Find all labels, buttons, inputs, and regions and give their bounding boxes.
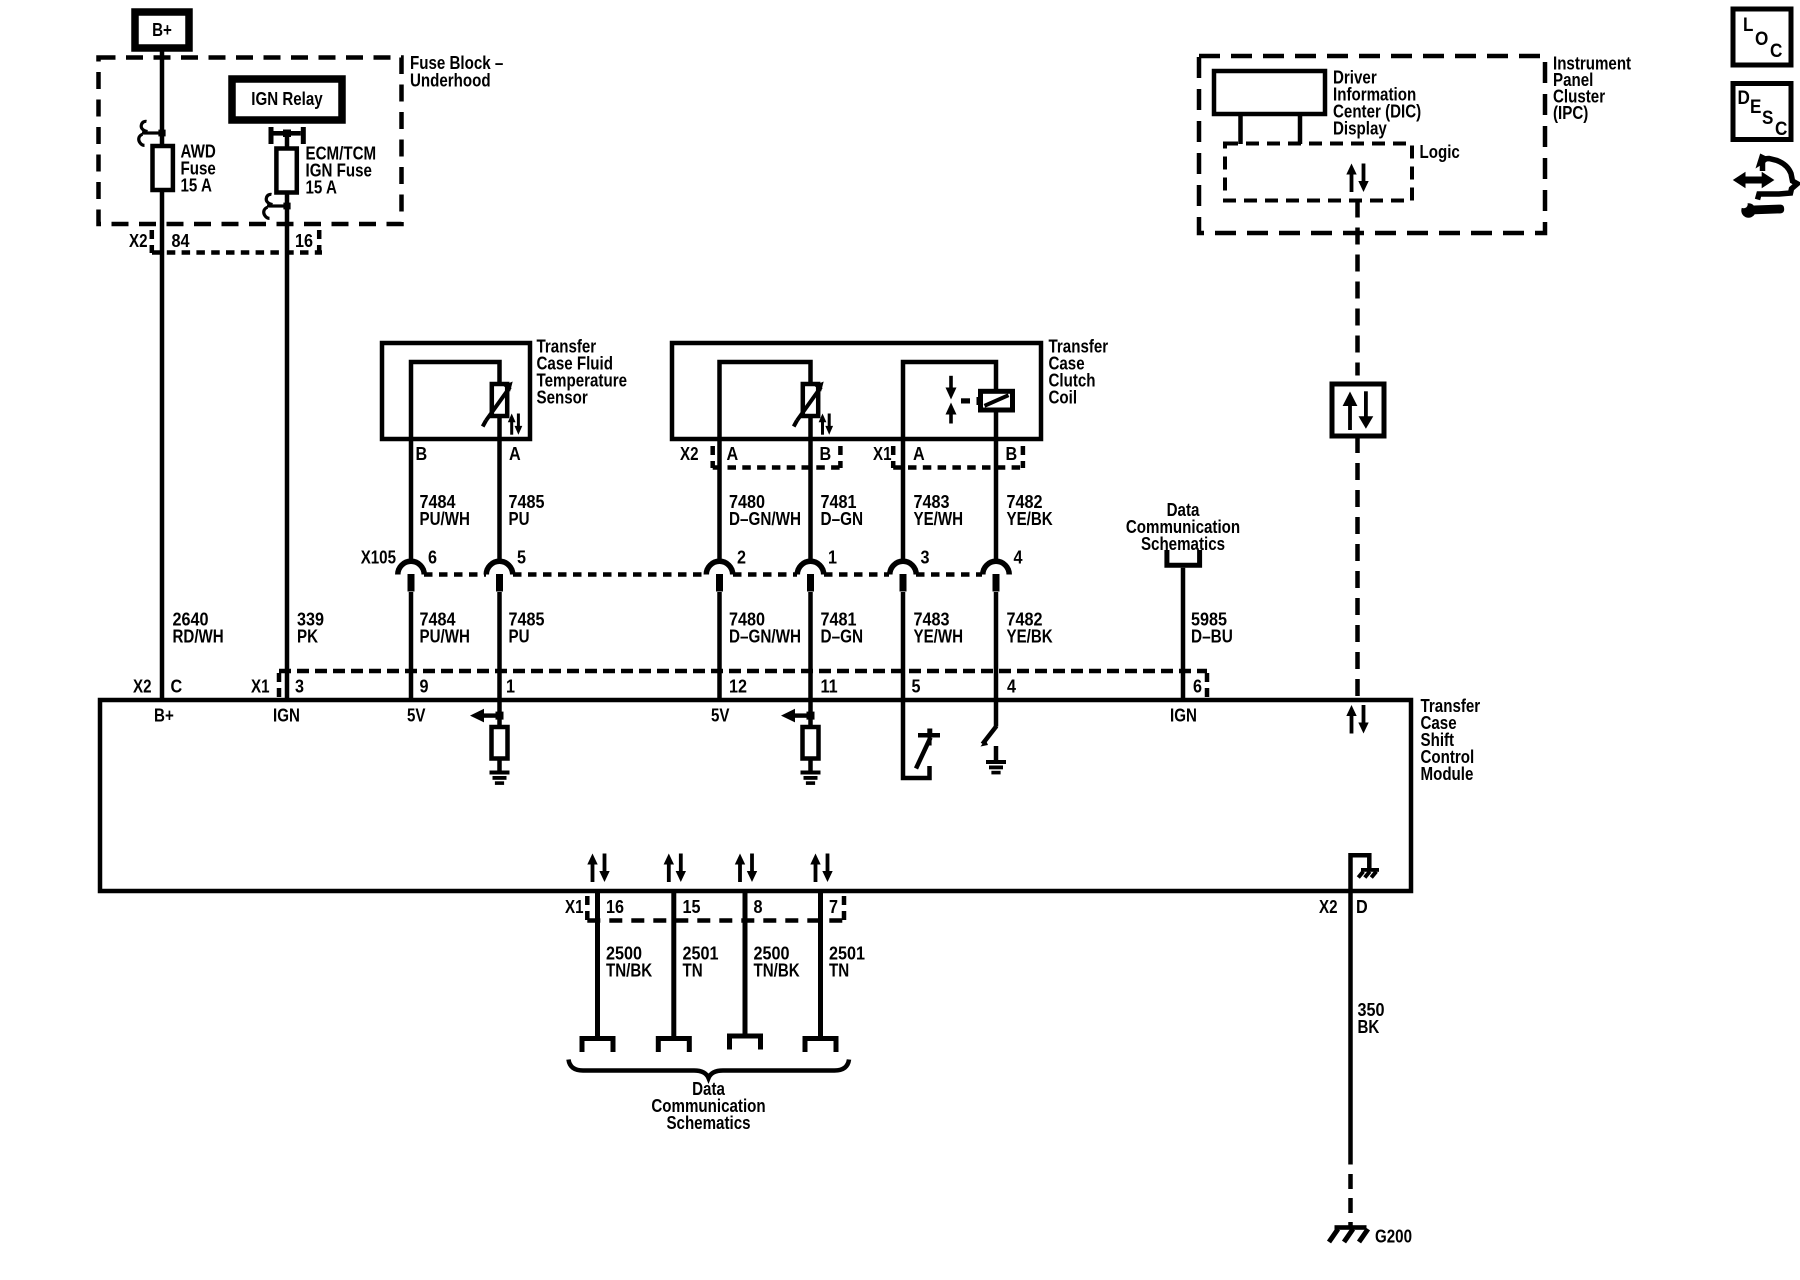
svg-text:PK: PK xyxy=(297,627,318,647)
transfer case fluid temperature sensor box xyxy=(382,343,530,439)
svg-text:4: 4 xyxy=(1007,677,1016,697)
wire label 5985 D-BU xyxy=(1191,610,1233,647)
svg-text:11: 11 xyxy=(821,677,838,697)
pin letters sensor1 xyxy=(416,444,521,464)
svg-text:(IPC): (IPC) xyxy=(1553,103,1588,123)
brace data communication xyxy=(569,1060,850,1079)
svg-text:1: 1 xyxy=(506,677,515,697)
svg-text:X1: X1 xyxy=(873,444,892,464)
bus hook below ECM fuse xyxy=(264,194,291,218)
svg-text:15: 15 xyxy=(683,897,701,917)
svg-text:IGN: IGN xyxy=(273,706,300,726)
dashed tail to G200 xyxy=(1348,1174,1353,1226)
X105 terminal pin 5 xyxy=(486,561,512,591)
off-page connector above pin 6 xyxy=(1167,550,1200,565)
svg-text:Underhood: Underhood xyxy=(410,71,491,91)
off-page connector pin15 wire xyxy=(658,1039,689,1053)
transfer case clutch coil box xyxy=(672,343,1041,439)
chassis ground internal at pin D xyxy=(1351,855,1380,891)
bus hook above AWD fuse xyxy=(139,121,166,145)
svg-text:84: 84 xyxy=(172,231,190,251)
svg-text:C: C xyxy=(171,677,183,697)
svg-text:4: 4 xyxy=(1014,548,1023,568)
wire 7481 D-GN pin B to module pin 11 xyxy=(808,362,813,562)
wire labels 7480 upper xyxy=(729,492,801,529)
icon DESC box xyxy=(1733,84,1791,141)
svg-text:YE/BK: YE/BK xyxy=(1007,509,1053,529)
svg-text:7: 7 xyxy=(829,897,838,917)
X105 terminal pin 2 xyxy=(706,561,732,591)
svg-text:PU: PU xyxy=(509,627,530,647)
module connector X1 dashed row xyxy=(279,671,1207,699)
svg-text:B: B xyxy=(820,444,832,464)
svg-text:D: D xyxy=(1356,897,1368,917)
module bottom connector X1 row xyxy=(565,896,844,921)
wire label 2501 TN first xyxy=(683,944,719,981)
wire labels 7483 upper xyxy=(914,492,964,529)
module pin function labels xyxy=(154,706,1197,726)
wire labels 7481 lower xyxy=(821,610,864,647)
X105 terminal pin 6 xyxy=(398,561,424,591)
relay IGN box xyxy=(232,79,342,120)
wire labels 7483 lower xyxy=(914,610,964,647)
label data communication schematics right xyxy=(1126,500,1240,554)
svg-text:E: E xyxy=(1750,97,1761,118)
svg-text:X2: X2 xyxy=(133,677,152,697)
B+ battery box xyxy=(135,12,189,48)
icon LOC box xyxy=(1733,9,1791,65)
wire label 2640 RD/WH xyxy=(173,610,224,647)
wire labels 7482 upper xyxy=(1007,492,1053,529)
svg-text:X105: X105 xyxy=(361,548,396,568)
svg-text:X2: X2 xyxy=(1319,897,1338,917)
module pin D labels X2 D xyxy=(1319,897,1368,917)
thermistor in sensor 1 xyxy=(483,382,513,427)
connector X1 of clutch coil xyxy=(873,444,1023,468)
arrows bidirectional small sensor1 xyxy=(508,414,522,435)
fuse block underhood dashed box xyxy=(99,58,402,225)
ground below pin1 resistor xyxy=(490,771,510,785)
off-page connector pin8 wire xyxy=(730,1036,761,1050)
DIC legs xyxy=(1241,114,1301,144)
svg-text:PU/WH: PU/WH xyxy=(420,627,470,647)
thermistor in sensor 2 xyxy=(794,382,824,427)
svg-text:B: B xyxy=(1006,444,1018,464)
wire label 2500 TN/BK second xyxy=(754,944,800,981)
svg-text:L: L xyxy=(1743,15,1754,36)
wire labels 7480 lower xyxy=(729,610,801,647)
label IPC xyxy=(1553,54,1631,124)
label clutch coil box xyxy=(1049,337,1109,408)
DIC display box xyxy=(1214,71,1325,114)
svg-text:X1: X1 xyxy=(565,897,584,917)
logic dashed box xyxy=(1225,144,1412,201)
svg-text:TN/BK: TN/BK xyxy=(606,961,652,981)
svg-text:RD/WH: RD/WH xyxy=(173,627,224,647)
wire labels 7484 PU/WH lower xyxy=(420,610,470,647)
svg-text:O: O xyxy=(1755,29,1768,50)
svg-text:TN: TN xyxy=(683,961,703,981)
module bottom serial wires xyxy=(598,893,821,1036)
svg-text:3: 3 xyxy=(921,548,930,568)
svg-text:YE/BK: YE/BK xyxy=(1007,627,1053,647)
X105 pin numbers xyxy=(428,548,1023,568)
dashed serial data wire from IPC xyxy=(1355,201,1360,701)
off-page connector pin16 wire xyxy=(582,1039,613,1053)
svg-text:D: D xyxy=(1738,88,1750,109)
wire labels 7484 PU/WH upper xyxy=(420,492,470,529)
wire 7483 YE/WH pin A to module pin 5 xyxy=(901,362,906,562)
svg-text:PU: PU xyxy=(509,509,530,529)
arrows bidirectional above pin16 xyxy=(587,854,609,883)
svg-text:D–GN: D–GN xyxy=(821,627,864,647)
svg-text:IGN: IGN xyxy=(1170,706,1197,726)
wire IGN feed 339 xyxy=(285,134,290,700)
label fuse block xyxy=(410,53,503,91)
svg-text:Display: Display xyxy=(1333,119,1387,139)
svg-text:B+: B+ xyxy=(154,706,174,726)
svg-text:5V: 5V xyxy=(711,706,730,726)
svg-text:D–BU: D–BU xyxy=(1191,627,1233,647)
wire 7485 PU pin A to module pin 1 xyxy=(497,362,502,562)
svg-text:C: C xyxy=(1775,119,1788,140)
fuse AWD 15A xyxy=(153,142,216,196)
svg-text:D–GN/WH: D–GN/WH xyxy=(729,627,801,647)
svg-text:16: 16 xyxy=(295,231,313,251)
svg-text:5V: 5V xyxy=(407,706,426,726)
label sensor 1 xyxy=(537,337,628,408)
svg-text:S: S xyxy=(1762,108,1773,129)
wire 7480 D-GN/WH pin A to module pin 12 xyxy=(717,362,722,562)
wire labels 7485 PU upper xyxy=(509,492,545,529)
svg-text:B: B xyxy=(416,444,428,464)
svg-text:D–GN: D–GN xyxy=(821,509,864,529)
svg-text:YE/WH: YE/WH xyxy=(914,627,964,647)
connector X105 dashed link xyxy=(424,572,982,577)
wire 7484 PU/WH pin B to module pin 9 xyxy=(409,362,414,562)
junction pin11 arrow xyxy=(807,712,815,720)
svg-text:X2: X2 xyxy=(129,231,148,251)
wire labels 7482 lower xyxy=(1007,610,1053,647)
clutch coil symbol xyxy=(946,376,1013,424)
arrows bidirectional in logic box xyxy=(1346,164,1368,193)
wire label 2501 TN second xyxy=(829,944,865,981)
off-page connector pin7 wire xyxy=(805,1039,836,1053)
wire label 2500 TN/BK first xyxy=(606,944,652,981)
svg-text:D–GN/WH: D–GN/WH xyxy=(729,509,801,529)
wire 5985 D-BU xyxy=(1181,568,1186,700)
wire B+ feed 2640 xyxy=(160,48,165,700)
ground below pin11 resistor xyxy=(801,771,821,785)
wire 7482 YE/BK pin B to module pin 4 xyxy=(994,362,999,562)
5V pullup arrow resistor ground at pin 1 xyxy=(470,702,508,772)
relay contact symbol xyxy=(269,127,306,144)
label module xyxy=(1421,696,1481,784)
X105 terminal pin 3 xyxy=(890,561,916,591)
svg-text:15 A: 15 A xyxy=(181,176,212,196)
svg-text:B+: B+ xyxy=(152,20,172,40)
label DIC xyxy=(1333,68,1421,139)
svg-text:A: A xyxy=(727,444,739,464)
connector X2 of sensor2 xyxy=(680,444,840,468)
svg-text:A: A xyxy=(913,444,925,464)
serial data link box symbol xyxy=(1332,384,1384,436)
arrows bidirectional small sensor2 xyxy=(819,414,834,435)
svg-text:9: 9 xyxy=(420,677,429,697)
wire labels 7485 PU lower xyxy=(509,610,545,647)
connector X2 row of fuse block xyxy=(129,230,322,253)
label data communication schematics bottom xyxy=(651,1079,765,1133)
svg-text:A: A xyxy=(509,444,521,464)
switch contact at pin 5 xyxy=(903,702,940,778)
svg-text:X2: X2 xyxy=(680,444,699,464)
svg-text:Module: Module xyxy=(1421,764,1474,784)
junction pin1 arrow xyxy=(496,712,504,720)
svg-text:15 A: 15 A xyxy=(306,178,337,198)
svg-text:G200: G200 xyxy=(1375,1227,1412,1247)
wire 350 BK ground xyxy=(1348,893,1353,1165)
fuse ECM/TCM IGN 15A xyxy=(276,144,376,198)
icon diagnostic arrows wrench xyxy=(1733,154,1798,218)
5V pullup arrow resistor ground at pin 11 xyxy=(781,702,819,772)
svg-text:YE/WH: YE/WH xyxy=(914,509,964,529)
svg-text:TN: TN xyxy=(829,961,849,981)
wire labels 7481 upper xyxy=(821,492,864,529)
svg-text:1: 1 xyxy=(828,548,837,568)
svg-text:16: 16 xyxy=(606,897,624,917)
svg-text:2: 2 xyxy=(737,548,746,568)
svg-text:IGN Relay: IGN Relay xyxy=(251,89,322,109)
wire label 350 BK xyxy=(1358,1000,1385,1037)
svg-text:6: 6 xyxy=(428,548,437,568)
svg-text:C: C xyxy=(1770,41,1783,62)
svg-text:Logic: Logic xyxy=(1420,142,1460,162)
svg-text:Sensor: Sensor xyxy=(537,388,588,408)
svg-text:5: 5 xyxy=(912,677,921,697)
svg-text:3: 3 xyxy=(295,677,304,697)
svg-text:8: 8 xyxy=(754,897,763,917)
arrows bidirectional above pin15 xyxy=(664,854,686,883)
svg-text:Schematics: Schematics xyxy=(666,1113,750,1133)
svg-text:X1: X1 xyxy=(251,677,270,697)
svg-text:12: 12 xyxy=(729,677,747,697)
ground G200 chassis symbol xyxy=(1329,1225,1368,1242)
svg-text:Schematics: Schematics xyxy=(1141,534,1225,554)
svg-text:BK: BK xyxy=(1358,1017,1380,1037)
ground below pin4 switch xyxy=(986,760,1006,774)
svg-text:TN/BK: TN/BK xyxy=(754,961,800,981)
svg-text:6: 6 xyxy=(1193,677,1202,697)
X105 terminal pin 1 xyxy=(797,561,823,591)
arrows bidirectional above pin7 xyxy=(810,854,832,883)
svg-text:5: 5 xyxy=(517,548,526,568)
svg-text:PU/WH: PU/WH xyxy=(420,509,470,529)
X105 terminal pin 4 xyxy=(983,561,1009,591)
svg-text:Coil: Coil xyxy=(1049,388,1078,408)
arrows bidirectional above pin8 xyxy=(735,854,757,883)
transfer case shift control module box xyxy=(100,700,1411,891)
instrument panel cluster dashed box xyxy=(1199,56,1545,233)
wire label 339 PK xyxy=(297,610,324,647)
module top pin labels xyxy=(133,677,1202,697)
switch to ground at pin 4 xyxy=(981,702,997,761)
arrows bidirectional at module serial data entry xyxy=(1346,705,1368,734)
